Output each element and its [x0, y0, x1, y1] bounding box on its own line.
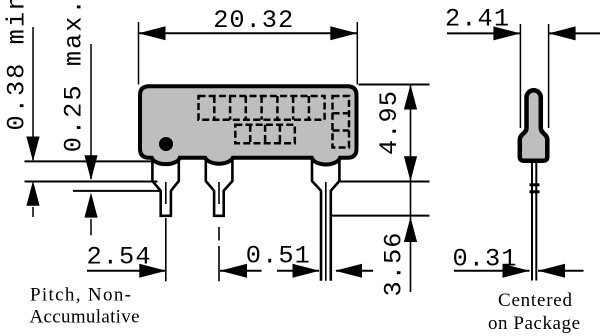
svg-text:4.95: 4.95 [375, 91, 404, 155]
svg-text:3.56: 3.56 [380, 233, 409, 297]
svg-text:0.38 min.: 0.38 min. [3, 0, 32, 131]
svg-text:2.54: 2.54 [87, 243, 151, 272]
svg-text:Pitch, Non-: Pitch, Non- [30, 285, 131, 306]
svg-text:2.41: 2.41 [445, 5, 509, 34]
svg-text:Centered: Centered [498, 290, 573, 311]
svg-text:on Package: on Package [488, 313, 580, 334]
svg-text:0.31: 0.31 [453, 245, 517, 274]
svg-text:Accumulative: Accumulative [30, 307, 140, 328]
svg-text:0.25 max.: 0.25 max. [60, 0, 89, 152]
svg-text:0.51: 0.51 [246, 242, 310, 271]
svg-text:20.32: 20.32 [213, 6, 293, 35]
